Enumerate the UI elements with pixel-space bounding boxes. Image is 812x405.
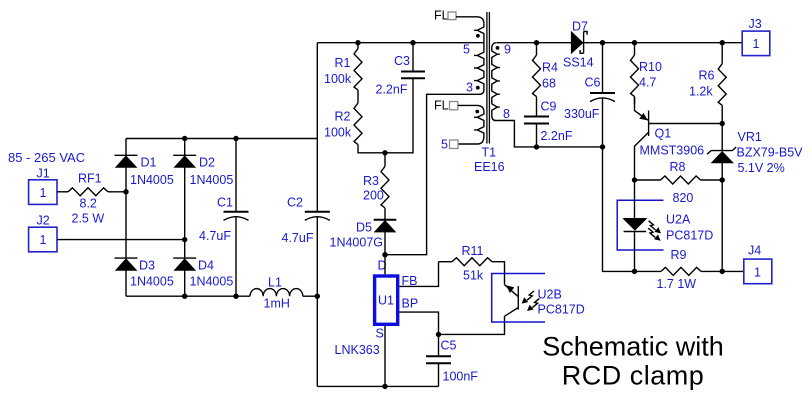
optocoupler U2A <box>617 180 713 271</box>
svg-text:U2B: U2B <box>538 288 562 302</box>
svg-text:C5: C5 <box>441 339 457 353</box>
svg-text:FB: FB <box>402 274 418 288</box>
svg-text:4.7uF: 4.7uF <box>199 229 231 243</box>
wire pin9 to D7 <box>497 42 572 44</box>
wire D7 to J3 <box>603 42 743 44</box>
svg-text:L1: L1 <box>268 276 282 290</box>
resistor R3 <box>363 153 389 208</box>
svg-text:FL: FL <box>434 99 449 113</box>
junction C9 bottom <box>534 144 539 149</box>
svg-text:D4: D4 <box>198 259 214 273</box>
svg-text:RF1: RF1 <box>78 172 102 186</box>
junction C6 bottom <box>600 144 605 149</box>
svg-text:R6: R6 <box>699 69 715 83</box>
svg-text:R3: R3 <box>363 174 379 188</box>
svg-text:D5: D5 <box>356 221 372 235</box>
svg-text:BP: BP <box>402 297 419 311</box>
diode D2 <box>173 155 233 187</box>
diode D5 <box>330 208 397 255</box>
wire bridge top rail <box>126 138 317 140</box>
diode D3 <box>115 258 174 288</box>
svg-text:D2: D2 <box>199 156 215 170</box>
resistor R2 <box>324 103 362 145</box>
svg-text:330uF: 330uF <box>564 107 600 121</box>
connector J1 <box>29 167 57 205</box>
svg-text:100k: 100k <box>324 126 352 140</box>
svg-text:9: 9 <box>504 43 511 57</box>
svg-text:8: 8 <box>503 107 510 121</box>
primary main winding 5-3 <box>474 43 484 95</box>
capacitor C3 <box>376 43 426 97</box>
junction C1 top <box>233 136 238 141</box>
svg-text:1N4005: 1N4005 <box>190 275 234 289</box>
svg-text:C2: C2 <box>287 196 303 210</box>
svg-text:100nF: 100nF <box>443 370 479 384</box>
svg-text:D1: D1 <box>141 156 157 170</box>
junction D2 top <box>182 136 187 141</box>
svg-text:5.1V 2%: 5.1V 2% <box>738 161 785 175</box>
svg-text:1N4007G: 1N4007G <box>330 236 384 250</box>
svg-text:1.2k: 1.2k <box>689 85 713 99</box>
wire D1/D3 column <box>125 139 127 297</box>
junction R10 top <box>632 40 637 45</box>
diode D1 <box>115 155 174 187</box>
svg-text:200: 200 <box>363 189 384 203</box>
svg-text:R9: R9 <box>671 248 687 262</box>
capacitor C5 <box>426 334 478 386</box>
core <box>487 12 490 144</box>
resistor R9 <box>635 248 744 291</box>
svg-text:4.7uF: 4.7uF <box>282 231 314 245</box>
connector J2 <box>29 214 57 252</box>
svg-text:T1: T1 <box>482 146 497 160</box>
junction R3 top <box>382 150 387 155</box>
svg-text:5: 5 <box>463 43 470 57</box>
wire FB <box>399 262 438 287</box>
svg-text:Q1: Q1 <box>655 127 672 141</box>
svg-text:2.2nF: 2.2nF <box>376 83 408 97</box>
svg-text:3: 3 <box>466 81 473 95</box>
junction R1 top <box>355 40 360 45</box>
wire J1 to RF1 <box>57 191 68 193</box>
resistor R8 <box>635 160 723 205</box>
svg-text:LNK363: LNK363 <box>335 343 380 357</box>
svg-text:85 - 265 VAC: 85 - 265 VAC <box>8 150 85 165</box>
wire J2 to bridge <box>57 239 185 241</box>
junction BP/C5 <box>436 332 441 337</box>
svg-text:D3: D3 <box>139 259 155 273</box>
svg-text:C3: C3 <box>394 54 410 68</box>
wire R2 bottom / snubber bottom <box>358 79 413 153</box>
resistor R6 <box>689 43 726 124</box>
resistor R10 <box>631 43 662 104</box>
junction RF1/D1/D3 <box>123 189 128 194</box>
resistor R4 <box>533 43 559 116</box>
wire BP junction to opto <box>439 316 505 334</box>
resistor R11 <box>439 244 505 285</box>
wire RF1 to bridge <box>108 191 126 193</box>
wire D2/D4 column <box>184 139 186 297</box>
transistor Q1 MMST3906 <box>635 97 723 180</box>
primary top section winding <box>474 23 484 43</box>
wire top rail primary <box>317 42 484 44</box>
svg-text:5: 5 <box>441 138 448 152</box>
svg-text:R11: R11 <box>462 244 484 258</box>
wire VR1 col down <box>721 180 723 271</box>
svg-text:68: 68 <box>542 77 556 91</box>
svg-text:SS14: SS14 <box>563 56 594 70</box>
junction C6 top <box>600 40 605 45</box>
phase dot bias <box>475 110 479 114</box>
connector J4 <box>744 244 772 284</box>
wire pin8 return <box>494 121 603 147</box>
svg-text:C6: C6 <box>585 76 601 90</box>
junction R4 top <box>534 40 539 45</box>
svg-text:FL: FL <box>434 9 449 23</box>
diode D4 <box>173 258 233 288</box>
connector J3 <box>742 17 770 56</box>
svg-text:VR1: VR1 <box>738 130 762 144</box>
wire pin3 loop <box>385 94 481 254</box>
bias winding <box>458 112 484 144</box>
svg-text:C1: C1 <box>217 196 233 210</box>
svg-text:2.5 W: 2.5 W <box>72 212 105 226</box>
svg-text:J1: J1 <box>37 167 50 181</box>
wire bridge bottom rail <box>126 295 250 297</box>
IC U1 LNK363 <box>335 255 398 387</box>
phase dot primary top <box>476 34 480 38</box>
svg-text:PC817D: PC817D <box>538 303 585 317</box>
junction J2/D2/D4 <box>182 237 187 242</box>
wire C2 column to primary ground rail <box>316 296 318 386</box>
junction L1 right / C2 <box>315 294 320 299</box>
junction C1 bottom <box>233 294 238 299</box>
svg-text:51k: 51k <box>463 269 484 283</box>
resistor RF1 <box>68 172 108 226</box>
svg-text:R8: R8 <box>670 160 686 174</box>
svg-text:PC817D: PC817D <box>666 229 713 243</box>
svg-text:100k: 100k <box>324 72 352 86</box>
svg-text:1N4005: 1N4005 <box>130 275 174 289</box>
wire primary ground rail <box>317 385 438 387</box>
diode D7 SS14 <box>563 20 603 70</box>
junction VR1 col / R9 right <box>720 269 725 274</box>
svg-text:EE16: EE16 <box>474 160 505 174</box>
junction R6 top <box>720 40 725 45</box>
svg-text:2.2nF: 2.2nF <box>541 129 573 143</box>
wire secondary return down <box>603 147 635 272</box>
svg-text:1.7 1W: 1.7 1W <box>657 277 697 291</box>
svg-text:R4: R4 <box>542 61 558 75</box>
svg-text:1: 1 <box>40 233 47 247</box>
wire R1-R2 <box>357 90 359 103</box>
svg-text:R10: R10 <box>639 60 662 74</box>
junction S / ground rail <box>382 384 387 389</box>
svg-text:Schematic with: Schematic with <box>542 332 724 362</box>
svg-text:D7: D7 <box>572 20 588 34</box>
svg-text:1: 1 <box>40 186 47 200</box>
junction R8 left / Q1 collector <box>632 177 637 182</box>
svg-text:J3: J3 <box>749 17 762 31</box>
svg-text:C9: C9 <box>541 100 557 114</box>
junction D5 / drain <box>382 252 387 257</box>
svg-text:1N4005: 1N4005 <box>130 173 174 187</box>
resistor R1 <box>324 43 362 90</box>
capacitor C2 <box>282 43 330 297</box>
inductor L1 <box>250 276 303 311</box>
svg-text:BZX79-B5V: BZX79-B5V <box>737 146 804 160</box>
transformer T1 <box>434 9 511 175</box>
capacitor C6 <box>564 43 615 147</box>
secondary winding <box>492 43 500 121</box>
junction Q1 base / R6 / VR1 <box>720 121 725 126</box>
capacitor C1 <box>199 139 249 297</box>
phase dot secondary <box>496 46 500 50</box>
svg-text:8.2: 8.2 <box>80 197 97 211</box>
wire BP <box>399 312 438 334</box>
svg-text:J4: J4 <box>748 244 761 258</box>
junction U2A bottom / R9 left <box>632 269 637 274</box>
svg-text:R2: R2 <box>335 110 351 124</box>
svg-text:820: 820 <box>673 191 694 205</box>
svg-text:J2: J2 <box>37 214 50 228</box>
optocoupler U2B <box>492 274 585 323</box>
svg-text:S: S <box>376 327 384 341</box>
svg-text:U2A: U2A <box>666 213 691 227</box>
junction D4 bottom <box>182 294 187 299</box>
svg-text:MMST3906: MMST3906 <box>640 144 705 158</box>
svg-text:RCD clamp: RCD clamp <box>562 361 705 391</box>
capacitor C9 <box>524 100 573 147</box>
svg-text:4.7: 4.7 <box>639 76 656 90</box>
phase dot pin3 <box>476 86 480 90</box>
svg-text:1: 1 <box>753 37 760 51</box>
junction C3 top <box>410 40 415 45</box>
junction R8 right / VR1 <box>720 177 725 182</box>
svg-text:1mH: 1mH <box>264 297 290 311</box>
svg-text:1: 1 <box>754 266 761 280</box>
svg-text:1N4005: 1N4005 <box>190 173 234 187</box>
svg-text:R1: R1 <box>335 56 351 70</box>
svg-text:U1: U1 <box>378 294 394 308</box>
zener VR1 <box>707 124 803 181</box>
